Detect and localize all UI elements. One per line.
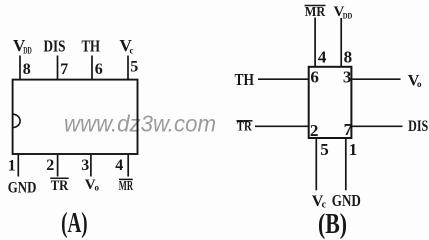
label MR-bar (pin 4, A) [119, 179, 134, 194]
svg-text:TR: TR [51, 178, 69, 194]
svg-text:5: 5 [130, 59, 138, 76]
pin 6 lead (A) [91, 56, 93, 81]
pin 7 lead / wire DIS (B) [351, 125, 402, 127]
svg-text:www.dz3w.com: www.dz3w.com [64, 111, 216, 137]
pin 2 lead / wire TR (B) [255, 125, 309, 127]
pin 4 lead (A) [127, 154, 129, 177]
label VC (pin 5, A) [120, 36, 134, 56]
pin 8 lead (B) [340, 18, 342, 67]
svg-text:8: 8 [23, 61, 31, 78]
svg-text:6: 6 [310, 67, 319, 86]
label Vo (pin 3, B) [408, 72, 422, 89]
svg-text:MR: MR [119, 179, 134, 194]
label VDD (pin 8, B) [334, 4, 353, 20]
pin 5 lead (A) [127, 56, 129, 81]
svg-text:c: c [130, 46, 134, 56]
pin 3 lead / wire Vo (B) [351, 78, 400, 80]
pin 3 lead (A) [90, 154, 92, 177]
svg-text:MR: MR [305, 5, 326, 20]
svg-text:TH: TH [235, 70, 255, 89]
pin 7 lead (A) [57, 56, 59, 81]
svg-text:GND: GND [8, 180, 37, 197]
label TR-bar (pin 2, A) [50, 178, 68, 194]
pin 8 lead (A) [19, 56, 21, 81]
pin-1 index notch (A) [13, 114, 21, 127]
IC body U2 (functional box, diagram B) [309, 67, 352, 138]
pin 6 lead / wire TH (B) [258, 78, 309, 80]
pin 1 lead (A) [17, 154, 19, 177]
svg-text:(B): (B) [318, 208, 347, 240]
svg-text:3: 3 [81, 157, 89, 174]
svg-text:o: o [95, 183, 100, 193]
svg-text:4: 4 [318, 48, 327, 67]
pin 5 lead (B) [315, 138, 317, 190]
label TR-bar (pin 2, B) [237, 120, 253, 135]
svg-text:5: 5 [320, 140, 329, 159]
svg-text:DD: DD [343, 11, 353, 20]
label Vo (pin 3, A) [85, 177, 100, 193]
pin 4 lead (B) [314, 18, 316, 68]
IC body U1 (DIP-8 outline, diagram A) [13, 80, 138, 154]
svg-text:7: 7 [60, 61, 68, 78]
svg-text:7: 7 [344, 120, 353, 139]
svg-text:TR: TR [237, 120, 253, 135]
svg-text:DIS: DIS [44, 37, 66, 56]
svg-text:3: 3 [343, 67, 352, 86]
label VDD (pin 8, A) [13, 36, 32, 56]
svg-text:1: 1 [349, 140, 358, 159]
svg-text:6: 6 [95, 61, 103, 78]
svg-text:DIS: DIS [408, 118, 428, 135]
svg-text:DD: DD [23, 46, 32, 56]
svg-text:8: 8 [344, 48, 353, 67]
svg-text:4: 4 [115, 157, 123, 174]
svg-text:2: 2 [310, 121, 319, 140]
svg-text:(A): (A) [61, 207, 88, 239]
svg-text:2: 2 [46, 157, 54, 174]
svg-text:1: 1 [8, 158, 16, 175]
svg-text:o: o [417, 79, 422, 89]
label MR-bar (pin 4, B) [305, 5, 326, 20]
pin 1 lead (B) [345, 138, 347, 190]
svg-text:TH: TH [82, 37, 101, 56]
label VC (pin 5, B) [312, 193, 327, 211]
pin 2 lead (A) [57, 154, 59, 177]
